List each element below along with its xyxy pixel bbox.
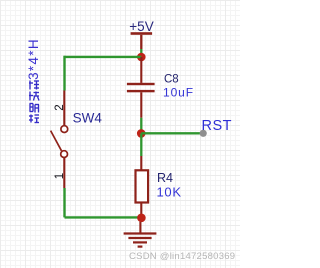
- annotation char 触 (drawn strokes): [30, 104, 40, 113]
- switch SW4 contact circle top: [61, 126, 68, 133]
- junction node bottom: [137, 214, 146, 223]
- svg-text:3*4*H: 3*4*H: [26, 38, 41, 80]
- annotation char 轻 (drawn strokes): [29, 115, 39, 123]
- annotation char 按 (drawn strokes): [29, 92, 39, 101]
- junction node middle: [137, 129, 146, 138]
- power +5V bar symbol: [131, 32, 153, 49]
- wire vertical left bottom: [63, 188, 65, 217]
- svg-text:10uF: 10uF: [163, 86, 194, 100]
- wire from C8 to node RST: [140, 118, 142, 134]
- capacitor C8 pin top: [140, 57, 142, 83]
- svg-text:CSDN @lin1472580369: CSDN @lin1472580369: [129, 251, 235, 262]
- switch SW4 contact circle bottom: [61, 151, 68, 158]
- wire horizontal bottom: [65, 216, 142, 218]
- svg-text:+5V: +5V: [129, 19, 153, 34]
- power +5V label: [129, 19, 153, 34]
- wire horizontal to RST: [141, 132, 202, 134]
- svg-text:10K: 10K: [157, 185, 182, 200]
- svg-text:1: 1: [54, 173, 66, 179]
- wire vertical left top: [63, 56, 65, 91]
- svg-text:SW4: SW4: [73, 110, 103, 125]
- svg-text:C8: C8: [164, 74, 179, 86]
- svg-text:R4: R4: [157, 171, 173, 185]
- wire horizontal top: [65, 56, 142, 58]
- resistor R4 body: [136, 170, 149, 202]
- svg-text:2: 2: [54, 104, 66, 110]
- ground symbol: [124, 222, 157, 247]
- wire from +5V to node: [140, 49, 142, 56]
- wire from node to R4: [140, 133, 142, 156]
- switch SW4 pin 1: [63, 158, 65, 188]
- resistor R4 pin bottom: [140, 202, 142, 214]
- resistor R4 pin top: [140, 156, 142, 170]
- switch SW4 lever: [51, 131, 62, 151]
- svg-text:RST: RST: [202, 118, 233, 134]
- node RST terminal dot: [200, 130, 207, 137]
- switch SW4 pin 2: [63, 91, 65, 126]
- annotation char 键 (drawn strokes): [29, 81, 39, 90]
- capacitor C8 pin bottom: [140, 92, 142, 118]
- junction node top: [137, 53, 146, 62]
- capacitor C8 plates: [127, 83, 155, 93]
